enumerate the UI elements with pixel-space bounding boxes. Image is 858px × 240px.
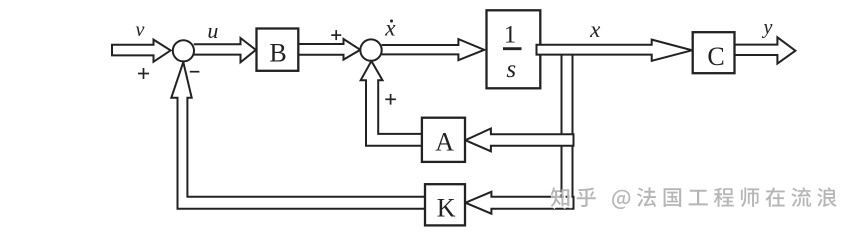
summing junction 2 xyxy=(360,39,381,60)
svg-text:K: K xyxy=(437,194,456,223)
block C xyxy=(693,32,735,73)
svg-text:A: A xyxy=(435,127,454,156)
wire: hollow arrow from tap into A (points left) xyxy=(465,129,573,152)
wire u: arrow from junction 1 into B xyxy=(194,38,256,62)
block K xyxy=(425,184,465,225)
svg-text:y: y xyxy=(762,17,773,39)
svg-text:x: x xyxy=(589,17,601,42)
block A xyxy=(422,118,465,162)
fraction bar of 1/s xyxy=(503,47,522,50)
wire: input v block arrow xyxy=(112,40,171,62)
wire: arrow from B into summing junction 2 xyxy=(298,39,360,60)
wire: vertical feedback tap from x node down to A and K rows xyxy=(561,54,563,208)
wire: A output line left and riser up into summing junction 2 xyxy=(361,61,422,146)
svg-text:1: 1 xyxy=(504,21,517,48)
plus sign at A feedback riser xyxy=(385,94,396,105)
summing junction 1 xyxy=(173,40,194,61)
svg-text:C: C xyxy=(707,42,724,71)
svg-text:x: x xyxy=(384,16,396,41)
svg-text:B: B xyxy=(269,39,286,68)
wire: hollow arrow from tap into K (points left) xyxy=(465,192,573,214)
block 1/s integrator xyxy=(487,10,541,88)
plus sign at input v xyxy=(138,68,149,79)
svg-text:s: s xyxy=(506,56,516,83)
wire: K output line left and riser up into summing junction 1 xyxy=(171,62,425,209)
svg-text:u: u xyxy=(207,18,218,43)
wire x: output line from integrator to C with hollow arrowhead xyxy=(537,40,693,61)
plus sign above B output xyxy=(331,30,341,40)
watermark 知乎 @法国工程师在流浪 (vector glyphs, white emboss under gray) xyxy=(553,189,839,211)
svg-text:v: v xyxy=(136,19,145,41)
wire y: output arrow from C xyxy=(735,37,796,63)
wire x-dot: arrow from junction 2 into integrator xyxy=(382,39,485,60)
block B xyxy=(257,29,299,71)
minus sign at junction 1 xyxy=(190,71,200,73)
